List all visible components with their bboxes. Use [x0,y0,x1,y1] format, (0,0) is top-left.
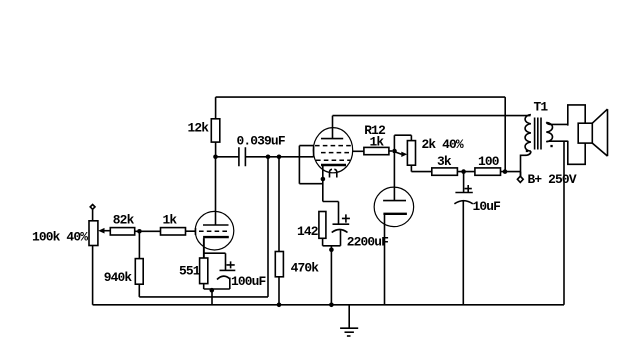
wire cathode net to rail [211,289,213,305]
wire R12 to node [389,150,392,152]
wire secondary bottom return [546,140,568,143]
wire secondary top to speaker [546,122,568,124]
terminal B+ diamond [517,176,523,182]
svg-text:100: 100 [478,154,499,169]
svg-text:10uF: 10uF [473,199,501,214]
node V2 cathode dot [321,177,326,182]
wire 3k to 100 [457,171,475,173]
wire V2 plate to transformer [333,115,531,117]
svg-text:0.039uF: 0.039uF [237,134,285,149]
resistor 142 [297,212,326,246]
svg-text:551: 551 [179,264,201,279]
speaker [568,105,608,164]
resistor 551 [179,238,208,289]
wire 12k bottom lead [215,142,217,157]
resistor 82k [110,213,134,235]
svg-text:1k: 1k [163,212,178,227]
node junction 12k/cap/plate [213,155,218,160]
resistor 1k input [161,212,186,235]
potentiometer 2k 40% [394,135,464,171]
primary winding [525,115,531,152]
wire net-A vertical drop [267,157,269,297]
node 551/100uF dot [210,288,215,293]
svg-text:2200uF: 2200uF [347,234,388,249]
resistor 3k [432,154,458,175]
wire 100 to B+ [501,172,521,177]
terminal input diamond [90,205,95,210]
wire V2 screen to R12 [352,150,364,152]
wire 940k top lead [138,231,140,258]
resistor 470k [275,157,319,305]
capacitor C 0.039uF [237,134,285,167]
resistor R12 1k [364,123,389,155]
core [535,118,541,150]
resistor 940k [104,259,144,285]
resistor 12k [188,119,220,142]
svg-text:470k: 470k [291,260,320,275]
wire top B+ rail [216,96,506,98]
triode V1 [195,157,234,250]
wire 1k to V1 grid [186,230,196,232]
wire to coupling cap [216,156,239,158]
node 82k/1k/940k dot [137,229,142,234]
wire V2 grid tie bracket [299,146,322,184]
svg-text:1k: 1k [370,134,385,149]
svg-text:142: 142 [297,224,318,239]
pentode V2 [313,116,352,178]
node RC rail dot [329,303,334,308]
secondary winding [546,122,552,141]
wire cathode RC to rail [330,246,332,305]
wire dot to 1k [135,230,161,232]
svg-text:B+ 250V: B+ 250V [528,172,577,187]
node RC junction dot [329,248,334,253]
potentiometer 100k 40% [32,221,110,246]
wire coupling cap to pentode grid [245,156,313,158]
transformer T1 [521,99,553,176]
svg-text:2k 40%: 2k 40% [422,137,464,152]
node A dot [266,155,271,160]
node B dot [277,155,282,160]
capacitor 100uF [204,261,266,289]
svg-text:82k: 82k [113,213,135,228]
wire input terminal to pot [92,209,94,221]
resistor 100 [475,154,501,175]
wire V2 cathode lead [322,166,324,202]
svg-text:T1: T1 [534,99,549,114]
wire 940k return horizontal [139,296,268,298]
node 3k/10uF dot [461,169,466,174]
wire V1 cathode leads [204,238,226,270]
wire 12k top lead [215,97,217,119]
node B+ dot [503,169,508,174]
wire 940k bottom lead [138,284,140,297]
wire B+ right drop [504,97,506,172]
svg-text:100k 40%: 100k 40% [32,229,88,244]
wire ground rail [93,304,564,306]
wire pot bottom lead [92,246,94,305]
svg-text:940k: 940k [104,270,133,285]
svg-text:3k: 3k [437,154,452,169]
node R12/pot/diode dot [392,149,397,154]
svg-text:100uF: 100uF [231,274,266,289]
node 470k/ground rail dot [277,303,282,308]
ground [340,305,358,336]
capacitor 10uF [454,172,500,305]
capacitor 2200uF [323,202,389,250]
diode tube V3 [374,151,414,305]
svg-text:12k: 12k [188,121,210,136]
